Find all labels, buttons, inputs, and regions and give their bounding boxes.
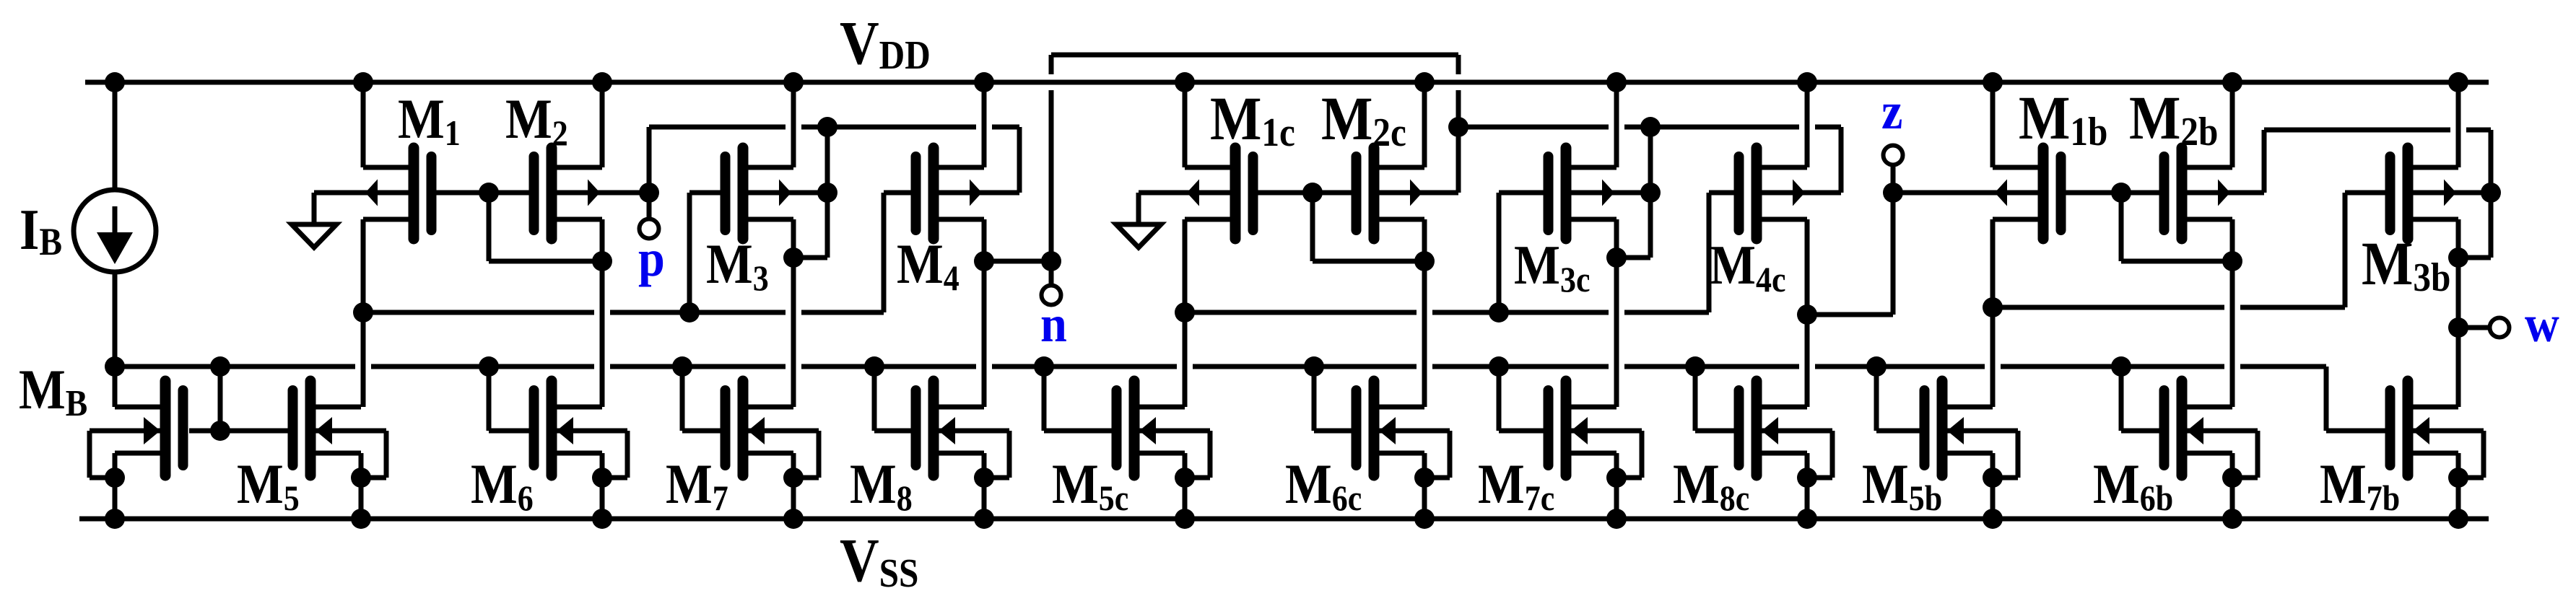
svg-text:n: n [1040,294,1067,352]
svg-text:z: z [1881,82,1902,139]
svg-text:p: p [638,229,665,286]
svg-text:w: w [2525,294,2559,352]
